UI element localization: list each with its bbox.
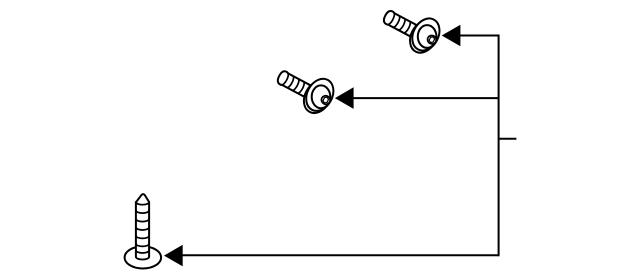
wire: middle leader segment <box>353 97 499 99</box>
screw 1: upper washer-head screw <box>377 0 447 59</box>
thread arc 3 <box>136 219 149 222</box>
thread arc 6 <box>136 244 149 247</box>
thread arc 2 <box>136 210 149 213</box>
flange base ellipse <box>125 246 162 268</box>
wire: top leader segment <box>459 35 499 37</box>
arrowhead to screw 1 (top) <box>442 25 461 47</box>
thread arc 1 <box>136 202 149 205</box>
cone point tip <box>136 194 149 202</box>
arrowhead to screw 3 (bottom) <box>164 245 183 267</box>
shaft bottom end arc <box>136 257 149 260</box>
shaft body fill <box>136 201 149 257</box>
thread arc 5 <box>136 236 149 239</box>
wire: bottom leader segment <box>182 254 499 256</box>
thread arc 7 <box>136 250 149 253</box>
arrowhead to screw 2 (middle) <box>335 87 354 109</box>
wire: tick stub on vertical connector <box>499 138 517 140</box>
screw 3: lower vertical tapping screw <box>125 194 162 268</box>
shaft side lines <box>136 202 149 257</box>
screw 2: middle washer-head screw <box>271 59 341 120</box>
thread arc 4 <box>136 227 149 230</box>
wire: vertical connector line <box>498 35 500 257</box>
